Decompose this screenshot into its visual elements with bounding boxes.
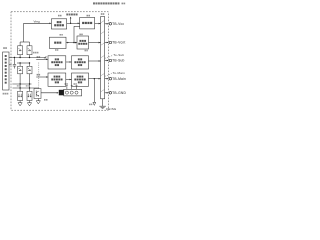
block S1: sub error amplifier <box>48 56 66 69</box>
wire: B to TB-Vcc <box>95 23 101 25</box>
wire: M2 to TB <box>89 78 101 80</box>
wire: M1 to M2 <box>66 79 72 81</box>
component box G1 (diodes) <box>18 91 23 100</box>
wire: input to S1 <box>36 59 48 61</box>
ground under T <box>36 99 40 104</box>
verticals F to G <box>20 74 29 92</box>
terminal block TB (tall right rectangle) <box>101 17 105 99</box>
block M2: main driver <box>72 73 89 86</box>
pin TB-Vcc <box>105 22 125 26</box>
component box F2 <box>27 66 32 74</box>
caption: circuit title (top-right) <box>93 2 125 4</box>
wire: S2 to TB <box>89 60 101 62</box>
block S2: sub driver <box>72 56 89 69</box>
wire: F row bus <box>17 62 30 66</box>
wire from sensor box <box>9 57 12 59</box>
signal ground drop line <box>93 79 96 106</box>
svg-text:TB-Sub: TB-Sub <box>112 59 125 63</box>
wire: Vreg rail to block A <box>24 23 52 43</box>
component box E1 <box>18 46 23 55</box>
bus y84 <box>12 83 31 84</box>
svg-text:TB-GND: TB-GND <box>112 91 126 95</box>
pin TB-Sub <box>105 59 125 63</box>
component box G2 (diodes) <box>27 91 32 100</box>
capacitor at left <box>13 58 16 69</box>
block D: overcurrent protection <box>77 36 89 49</box>
component box E2 <box>27 46 32 55</box>
label: to load circuit <box>66 14 77 16</box>
tiny labels above y88 bus <box>17 85 29 86</box>
block M: voltage control <box>50 37 67 48</box>
pin label above block D right <box>79 34 87 52</box>
pin TB-Main <box>105 77 127 81</box>
label above terminal block <box>101 13 104 15</box>
pin TB-Vcnt <box>105 41 126 45</box>
wire: M to D <box>66 42 77 44</box>
wire: A to B <box>67 23 80 25</box>
block A: reference regulator <box>51 19 66 29</box>
wire from sensor box 2 <box>9 64 12 66</box>
wire: B to D branch <box>73 26 79 43</box>
svg-text:FG=SG: FG=SG <box>106 107 117 111</box>
TB to chassis ground <box>99 99 105 109</box>
label above sensor box <box>3 47 7 49</box>
wire: branch to E boxes <box>20 42 29 46</box>
tiny labels around block M <box>55 34 63 51</box>
wire: T to dark cell <box>41 92 59 94</box>
svg-text:TB-Vcc: TB-Vcc <box>112 22 124 26</box>
transistor box T <box>34 89 41 99</box>
squiggle marks bottom-left <box>3 93 9 95</box>
tiny labels above connector <box>65 83 77 85</box>
block M1: main error amplifier <box>48 73 66 86</box>
svg-text:To-Sub: To-Sub <box>113 53 124 57</box>
wire: E row bus <box>12 55 46 59</box>
wire: S1 to S2 <box>66 61 72 63</box>
dark terminal cell <box>59 90 64 96</box>
svg-text:Vreg: Vreg <box>34 19 41 23</box>
ground under G2 <box>27 101 31 106</box>
arrow up to load-circuit label <box>70 17 72 24</box>
connector with 3 round terminals <box>64 89 82 96</box>
leader label To Main <box>105 71 125 76</box>
svg-text:To-Main: To-Main <box>113 71 126 75</box>
dashed control line <box>38 63 40 88</box>
IC unit dashed boundary <box>11 12 108 110</box>
wire: input to M1 <box>36 76 48 78</box>
connector leads up <box>66 86 77 90</box>
svg-text:TB-Vcnt: TB-Vcnt <box>112 41 125 45</box>
external sensor box (left, vertical text) <box>3 52 9 90</box>
pin label above block B <box>87 15 91 17</box>
block B: oscillator <box>80 17 95 29</box>
component box F1 <box>18 66 23 74</box>
pin label above block A <box>58 15 62 17</box>
bus y88 <box>13 87 39 88</box>
ground under G1 <box>18 101 22 106</box>
svg-text:TB-Main: TB-Main <box>112 77 126 81</box>
pin TB-GND <box>105 91 127 95</box>
leader label To Sub <box>105 53 125 58</box>
wire: D to TB <box>89 42 101 44</box>
